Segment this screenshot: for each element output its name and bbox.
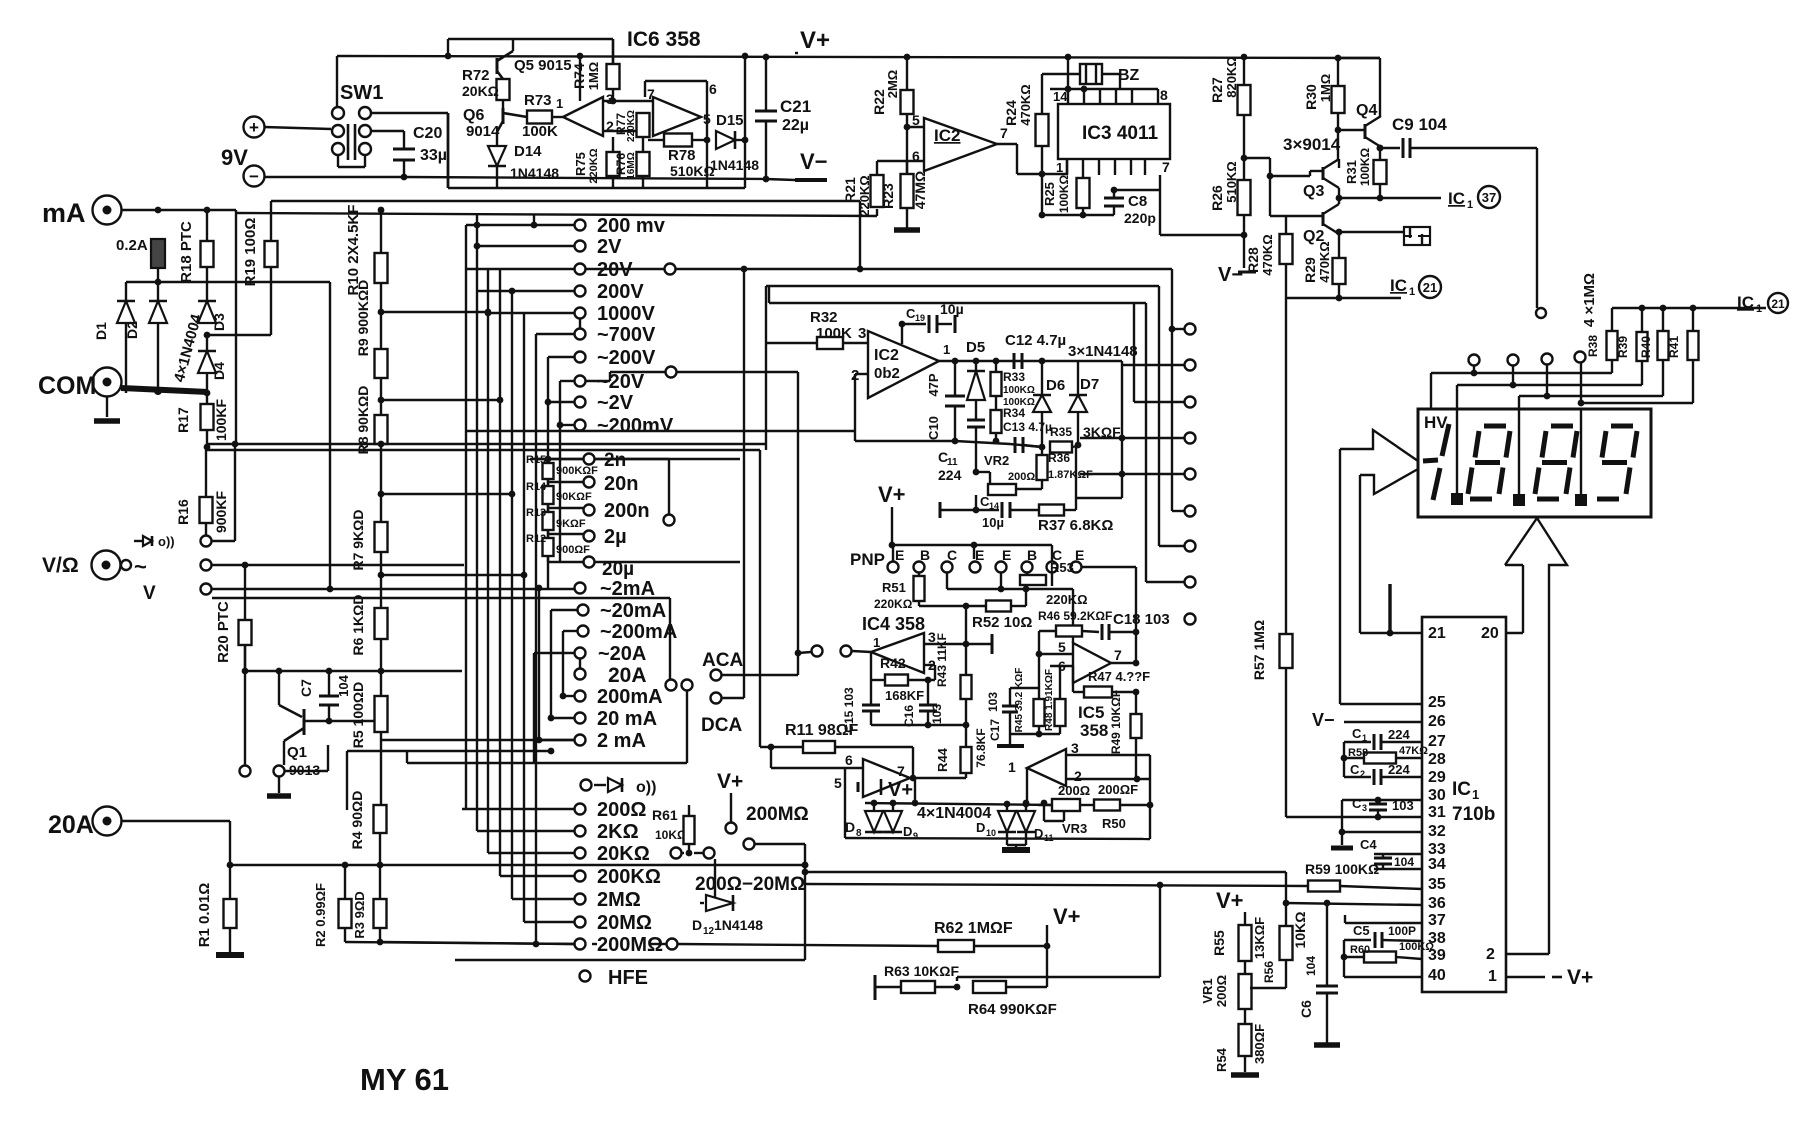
svg-text:200n: 200n xyxy=(604,500,650,522)
svg-text:R13: R13 xyxy=(526,507,546,519)
svg-text:47P: 47P xyxy=(926,373,941,396)
resistor R18 PTC xyxy=(206,210,208,241)
svg-text:100P: 100P xyxy=(1388,924,1416,938)
svg-text:R75: R75 xyxy=(573,152,588,176)
svg-text:103: 103 xyxy=(1392,798,1414,813)
wire fuse to diode bus xyxy=(157,268,159,282)
svg-text:20KΩ: 20KΩ xyxy=(462,83,499,99)
svg-text:2µ: 2µ xyxy=(604,526,627,548)
svg-text:10KΩ: 10KΩ xyxy=(655,828,687,842)
svg-text:R35: R35 xyxy=(1050,425,1072,439)
wire pin25 xyxy=(1340,703,1422,705)
svg-text:224: 224 xyxy=(1388,762,1410,777)
bundle wire v5 xyxy=(511,291,513,899)
resistor R14 90KF xyxy=(543,486,554,504)
svg-text:R53: R53 xyxy=(1050,560,1074,575)
wire Q2 R29 bottom rail xyxy=(1286,297,1401,299)
rail y589 xyxy=(947,588,1073,590)
display module box xyxy=(1418,409,1651,517)
svg-text:30: 30 xyxy=(1428,787,1446,804)
op-amp IC4A xyxy=(871,633,924,673)
wire display line D xyxy=(1692,360,1694,403)
resistor R33 100K xyxy=(995,361,997,372)
svg-text:R24: R24 xyxy=(1003,100,1019,126)
svg-text:37: 37 xyxy=(1482,190,1496,205)
wire switch to V+ rail xyxy=(336,56,338,107)
wire E3 stub xyxy=(1000,573,1002,589)
wire R4 to bus865 xyxy=(379,833,381,865)
svg-text:E: E xyxy=(1075,547,1084,563)
resistor R41 xyxy=(1692,308,1694,331)
svg-text:2V: 2V xyxy=(597,236,622,258)
svg-text:510KΩ: 510KΩ xyxy=(670,163,715,179)
block outline left xyxy=(765,286,767,450)
svg-text:R9 900KΩD: R9 900KΩD xyxy=(355,280,371,357)
transistor Q5 9015 xyxy=(496,58,499,74)
capacitor C9 104 xyxy=(1380,147,1400,149)
wire IC2top output to IC3 pin1 xyxy=(997,143,1017,145)
range row 2mA xyxy=(539,739,574,741)
svg-text:76.8KF: 76.8KF xyxy=(974,728,988,767)
svg-text:R16: R16 xyxy=(175,499,191,525)
svg-text:R11 98ΩF: R11 98ΩF xyxy=(785,722,859,739)
riser x805 xyxy=(804,844,806,960)
resistor R27 820K xyxy=(1243,57,1245,85)
wire pin3 to opamp2 xyxy=(603,100,653,102)
range row 200V xyxy=(477,290,574,292)
wire pin6 xyxy=(771,767,863,769)
svg-text:R25: R25 xyxy=(1042,182,1057,206)
svg-text:2n: 2n xyxy=(604,450,626,471)
wire mA to fuse xyxy=(121,209,236,211)
svg-text:V+: V+ xyxy=(1216,888,1244,913)
svg-text:D7: D7 xyxy=(1080,376,1099,393)
svg-text:900ΩF: 900ΩF xyxy=(556,544,590,556)
terminal DCA xyxy=(711,693,722,704)
resistor R37 6.8K xyxy=(1039,505,1064,516)
node R10-R9 tap to 1000V xyxy=(380,283,382,349)
svg-text:R52 10Ω: R52 10Ω xyxy=(972,614,1032,631)
bundle wire v6 xyxy=(523,313,525,922)
svg-text:R12: R12 xyxy=(526,533,546,545)
svg-text:V−: V− xyxy=(1218,264,1243,286)
svg-text:380ΩF: 380ΩF xyxy=(1252,1024,1267,1064)
svg-text:20KΩ: 20KΩ xyxy=(597,843,650,865)
svg-text:R19 100Ω: R19 100Ω xyxy=(242,218,259,287)
wire opamp1 top to V+ xyxy=(579,56,581,101)
svg-text:V+: V+ xyxy=(878,482,906,507)
wire pin20 xyxy=(1506,632,1523,634)
svg-text:R42: R42 xyxy=(880,655,906,671)
wire x330 from diode bus down xyxy=(329,282,331,589)
svg-text:220KΩ: 220KΩ xyxy=(626,110,637,142)
svg-text:20: 20 xyxy=(1481,625,1499,642)
svg-text:200Ω: 200Ω xyxy=(597,799,646,821)
svg-text:~700V: ~700V xyxy=(597,324,656,346)
bus y447 pair xyxy=(206,443,766,445)
capacitor C21 22u xyxy=(765,57,767,111)
pin5 stub xyxy=(857,782,860,792)
svg-text:47KΩ: 47KΩ xyxy=(1399,745,1428,757)
riser x1122 xyxy=(1121,361,1123,498)
range row 200mV xyxy=(466,224,574,226)
range row 20A xyxy=(575,669,586,680)
resistor R62 1MF xyxy=(938,940,974,952)
svg-text:R62 1MΩF: R62 1MΩF xyxy=(934,920,1013,937)
wire R5 bottom dogleg xyxy=(380,732,382,805)
svg-text:1: 1 xyxy=(1467,199,1473,211)
circle 200M right xyxy=(667,939,678,950)
range row 2n xyxy=(584,454,595,465)
svg-text:R45 39.2 KΩF: R45 39.2 KΩF xyxy=(1014,668,1025,733)
svg-text:5: 5 xyxy=(1058,639,1066,655)
rail under IC4 xyxy=(871,724,966,726)
svg-text:~20A: ~20A xyxy=(598,643,646,665)
wire pin7 down to V- node xyxy=(1160,234,1244,236)
resistor R64 990KF xyxy=(973,981,1006,993)
op-amp U6A xyxy=(563,97,603,136)
wire box bottom to V- xyxy=(447,113,449,188)
svg-text:5: 5 xyxy=(912,112,920,128)
svg-text:PNP: PNP xyxy=(850,550,885,569)
wire diode top bus xyxy=(126,281,330,283)
op-amp IC2 top xyxy=(924,118,997,171)
svg-text:D6: D6 xyxy=(1046,377,1065,394)
wire block to x1122 xyxy=(1076,497,1122,499)
wire Q2 emitter to battery symbol xyxy=(1339,231,1404,233)
svg-text:100KΩ: 100KΩ xyxy=(1003,385,1035,396)
wire ~20V row to riser xyxy=(586,380,610,382)
pair circles below ACA xyxy=(666,680,677,691)
terminal circle under R20 xyxy=(240,766,251,777)
resistor R44 76.8KF xyxy=(965,725,967,747)
svg-text:VR3: VR3 xyxy=(1062,821,1087,836)
svg-text:27: 27 xyxy=(1428,733,1446,750)
wire V+ branch x745 xyxy=(744,56,746,188)
bundle wire v4 xyxy=(499,269,501,876)
svg-text:R36: R36 xyxy=(1048,451,1070,465)
svg-text:1N4148: 1N4148 xyxy=(714,917,763,933)
svg-text:V/Ω: V/Ω xyxy=(42,554,79,577)
rail under IC5 xyxy=(1010,733,1060,735)
battery connector symbol xyxy=(1404,227,1430,245)
resistor R2 0.99F xyxy=(344,865,346,899)
svg-text:R56: R56 xyxy=(1262,961,1276,983)
bus y960 xyxy=(455,959,805,961)
svg-text:VR2: VR2 xyxy=(984,453,1009,468)
svg-text:R55: R55 xyxy=(1211,930,1227,956)
svg-text:103: 103 xyxy=(930,704,944,724)
svg-text:220p: 220p xyxy=(1124,210,1156,226)
svg-text:28: 28 xyxy=(1428,751,1446,768)
ground bar under C17 xyxy=(1009,712,1011,746)
ground below Q1 xyxy=(267,793,291,799)
svg-text:R23: R23 xyxy=(880,183,896,209)
diode D8 xyxy=(873,803,875,811)
svg-text:103: 103 xyxy=(986,692,1000,712)
wire C1pnp stub xyxy=(946,573,948,589)
svg-text:9V: 9V xyxy=(221,145,248,170)
svg-text:470KΩ: 470KΩ xyxy=(1018,84,1033,126)
range row 2V xyxy=(477,245,574,247)
wire x966 down to IC4 xyxy=(965,606,967,644)
svg-text:7: 7 xyxy=(647,86,655,102)
svg-text:1: 1 xyxy=(943,342,950,357)
resistor R23 47M xyxy=(906,161,908,174)
svg-text:2: 2 xyxy=(1074,768,1082,784)
wire IC3 pin14 to Vplus xyxy=(1067,57,1069,89)
svg-text:1: 1 xyxy=(1488,968,1497,985)
wire pin31 from R57 xyxy=(1286,816,1422,818)
resistor R57 1M xyxy=(1285,298,1287,634)
rail above R38-41 xyxy=(1612,307,1693,309)
wire IC5B pin2 row xyxy=(1066,778,1150,780)
wire IC5B pin3 row xyxy=(1066,754,1150,756)
wire to IC1-21 right xyxy=(1693,307,1766,309)
svg-text:R40: R40 xyxy=(1639,336,1653,358)
svg-text:R34: R34 xyxy=(1003,406,1025,420)
wire y763 return xyxy=(407,762,687,764)
circles at IC4 input xyxy=(798,652,811,653)
svg-text:C: C xyxy=(1352,726,1362,741)
ground below COM xyxy=(106,396,108,417)
svg-text:20A: 20A xyxy=(48,811,94,839)
resistor R73 100K xyxy=(527,111,552,124)
op-amp IC5B xyxy=(1027,749,1066,786)
svg-text:Q1: Q1 xyxy=(287,744,307,761)
transistor Q4 xyxy=(1364,124,1367,139)
wire battery minus rail V- y177 xyxy=(264,176,404,178)
IC6 box outline xyxy=(448,38,613,40)
svg-text:1000V: 1000V xyxy=(597,303,655,325)
IC3 4011 box xyxy=(1058,104,1170,159)
tap 2u xyxy=(547,530,549,538)
tap 20n xyxy=(547,479,549,486)
svg-text:R4 90ΩD: R4 90ΩD xyxy=(349,791,365,850)
rail y803 xyxy=(865,803,1054,805)
wire pin5 xyxy=(1039,653,1073,655)
svg-text:SW1: SW1 xyxy=(340,82,383,104)
svg-text:R27: R27 xyxy=(1209,77,1225,103)
svg-text:D1: D1 xyxy=(93,322,109,340)
svg-text:R2 0.99ΩF: R2 0.99ΩF xyxy=(313,883,328,947)
wire y598 from V area xyxy=(212,597,670,599)
arrow from IC1 pin20 up to display xyxy=(1505,518,1567,954)
output rail IC2 0b2 xyxy=(939,360,1122,362)
resistor R77 220K xyxy=(637,113,650,137)
resistor R21 220K xyxy=(876,161,878,175)
wire battery plus to switch xyxy=(264,127,331,129)
capacitor C10 47P xyxy=(954,361,956,396)
svg-text:R6 1KΩD: R6 1KΩD xyxy=(350,594,366,655)
buzzer BZ xyxy=(1042,73,1080,75)
svg-text:90KΩF: 90KΩF xyxy=(556,491,592,503)
wire pin40 xyxy=(1344,976,1422,978)
svg-text:21: 21 xyxy=(1428,625,1446,642)
svg-text:B: B xyxy=(1027,547,1037,563)
wire 2n row right branch xyxy=(595,458,669,460)
terminal ACA xyxy=(711,670,722,681)
svg-text:R29: R29 xyxy=(1302,257,1318,283)
svg-text:R39: R39 xyxy=(1616,336,1630,358)
svg-text:13KΩF: 13KΩF xyxy=(1252,917,1267,959)
svg-text:C18 103: C18 103 xyxy=(1113,611,1170,628)
terminal 20A xyxy=(93,807,122,836)
svg-text:R30: R30 xyxy=(1303,84,1319,110)
resistor R22 2M xyxy=(906,57,908,90)
wire R16 to V-ohm selector circles xyxy=(205,523,207,535)
wire pin2 loop xyxy=(855,373,868,375)
op-amp IC4B xyxy=(863,759,910,797)
svg-text:R14: R14 xyxy=(526,481,547,493)
resistor R10 2x4.5KF xyxy=(380,210,382,253)
terminal mA xyxy=(93,196,122,225)
svg-text:R46 59.2KΩF: R46 59.2KΩF xyxy=(1038,609,1112,623)
svg-text:22µ: 22µ xyxy=(782,117,809,134)
svg-text:R44: R44 xyxy=(935,747,950,772)
svg-text:34: 34 xyxy=(1428,856,1446,873)
capacitor C19 10u xyxy=(901,324,903,344)
resistor R16 900KF xyxy=(205,447,207,497)
op-amp U6B xyxy=(653,97,701,136)
svg-text:R61: R61 xyxy=(652,807,678,823)
wire D8 D9 join xyxy=(874,831,893,833)
svg-text:358: 358 xyxy=(1080,721,1108,740)
svg-text:C9 104: C9 104 xyxy=(1392,115,1447,134)
wire R26 bottom to V- stub xyxy=(1243,215,1245,268)
capacitor C6 104 xyxy=(1326,903,1328,986)
resistor R31 100K xyxy=(1379,148,1381,160)
svg-text:R26: R26 xyxy=(1209,185,1225,211)
wire Q1 label frame xyxy=(327,745,329,771)
transistor Q3 xyxy=(1322,167,1325,180)
ground below R1 xyxy=(216,952,244,958)
PNP socket circles xyxy=(892,545,894,561)
wire pin7 to C8 node xyxy=(1114,189,1160,191)
wire output down to diode rail xyxy=(914,778,916,803)
svg-text:R31: R31 xyxy=(1344,160,1359,184)
svg-text:5: 5 xyxy=(834,775,842,791)
svg-text:Q6: Q6 xyxy=(463,107,484,124)
wire pin37 xyxy=(1345,922,1422,924)
svg-text:200Ω−20MΩ: 200Ω−20MΩ xyxy=(695,874,805,895)
wire 20V row extension xyxy=(586,268,610,270)
resistor R15 900KF xyxy=(543,463,554,479)
svg-text:HV: HV xyxy=(1424,413,1448,432)
capacitor C1 224 xyxy=(1344,741,1371,743)
resistor R40 xyxy=(1662,308,1664,331)
node R9-R8 tap xyxy=(380,378,382,415)
svg-text:200KΩ: 200KΩ xyxy=(597,866,661,888)
resistor R25 100K xyxy=(1082,175,1084,178)
link 1000V to 700V xyxy=(579,319,581,328)
svg-text:R7 9KΩD: R7 9KΩD xyxy=(350,509,366,570)
wire E4 to IC5 output column xyxy=(1082,566,1136,568)
svg-text:220KΩ: 220KΩ xyxy=(1046,592,1088,607)
svg-text:V+: V+ xyxy=(1567,966,1593,989)
PNP rail xyxy=(892,544,1052,546)
wire R3 bottom xyxy=(379,928,381,942)
svg-text:900KΩF: 900KΩF xyxy=(556,465,598,477)
svg-text:9: 9 xyxy=(913,831,918,841)
svg-text:C4: C4 xyxy=(1360,837,1377,852)
svg-text:200 mv: 200 mv xyxy=(597,215,666,237)
arrow tails to IC1 pins xyxy=(1339,449,1341,704)
svg-text:IC2: IC2 xyxy=(874,347,899,364)
vertical link x539 xyxy=(538,588,540,740)
svg-text:0b2: 0b2 xyxy=(874,365,900,382)
svg-text:104: 104 xyxy=(1394,855,1414,869)
resistor R55 13KF xyxy=(1239,925,1252,961)
rail y606 R51 R52 xyxy=(918,601,920,606)
label V+ near R62 xyxy=(1046,925,1048,946)
display digit 9 third xyxy=(1611,424,1633,429)
svg-text:R5 100ΩD: R5 100ΩD xyxy=(350,682,366,748)
svg-text:C12 4.7µ: C12 4.7µ xyxy=(1005,332,1066,349)
svg-text:7: 7 xyxy=(1000,125,1008,141)
bundle wire v7 xyxy=(535,334,537,944)
riser x744 20V to DCA xyxy=(743,269,745,698)
svg-text:470KΩ: 470KΩ xyxy=(1260,234,1275,276)
riser x1172 rows C1 C6 xyxy=(1171,269,1173,511)
svg-text:E: E xyxy=(975,547,984,563)
display digit 8 first xyxy=(1484,424,1506,429)
riser x798 from ~20V row xyxy=(797,372,799,675)
svg-text:IC2: IC2 xyxy=(934,126,960,145)
resistor R7 9KD xyxy=(375,522,388,552)
svg-text:R28: R28 xyxy=(1245,247,1261,273)
svg-text:DCA: DCA xyxy=(701,715,742,736)
svg-text:36: 36 xyxy=(1428,895,1446,912)
diode D2 xyxy=(157,282,159,301)
battery 9V plus terminal xyxy=(244,117,265,138)
resistor R20 PTC xyxy=(244,565,246,620)
svg-text:104: 104 xyxy=(336,674,351,696)
IC1 7106 box xyxy=(1422,617,1506,992)
svg-text:Q4: Q4 xyxy=(1356,102,1377,119)
svg-text:R32: R32 xyxy=(810,309,838,326)
capacitor C7 104 xyxy=(326,668,333,675)
svg-text:168KF: 168KF xyxy=(885,688,924,703)
svg-text:V−: V− xyxy=(800,149,828,174)
svg-text:20MΩ: 20MΩ xyxy=(597,912,652,934)
svg-text:224: 224 xyxy=(1388,727,1410,742)
svg-text:35: 35 xyxy=(1428,876,1446,893)
wire pin3 rail xyxy=(924,643,992,645)
svg-text:BZ: BZ xyxy=(1118,67,1140,84)
svg-text:R47 4.??F: R47 4.??F xyxy=(1088,669,1150,684)
wire pin2 to display arrow xyxy=(1506,953,1549,955)
range row ~2V xyxy=(548,401,574,403)
wire V+ node down to R64 xyxy=(1046,946,1048,987)
svg-text:MY 61: MY 61 xyxy=(360,1062,449,1097)
svg-text:7: 7 xyxy=(897,763,905,779)
selector circle row B xyxy=(201,560,212,571)
resistor R9 900KD xyxy=(375,349,388,378)
circle column right xyxy=(1185,324,1196,335)
wire display line B xyxy=(1641,361,1643,385)
svg-text:R41: R41 xyxy=(1667,336,1681,358)
bundle wire v8 xyxy=(547,357,549,588)
resistor R74 1M xyxy=(612,39,614,64)
diode D15 xyxy=(692,139,707,141)
svg-text:1: 1 xyxy=(1362,733,1367,743)
svg-text:R38: R38 xyxy=(1586,335,1600,357)
display sense circles xyxy=(1469,355,1480,366)
svg-text:R59 100KΩ: R59 100KΩ xyxy=(1305,861,1379,877)
wire switch right contacts xyxy=(371,112,448,114)
svg-text:IC: IC xyxy=(1448,189,1465,208)
